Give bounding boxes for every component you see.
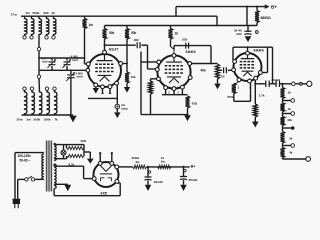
wire to lamp bbox=[116, 85, 118, 105]
switch rotor contact bbox=[37, 47, 40, 50]
wire plate pin stub bbox=[247, 47, 249, 51]
capacitor .002 coupling bbox=[137, 42, 140, 48]
svg-text:50k: 50k bbox=[131, 31, 137, 35]
svg-text:20mfd: 20mfd bbox=[154, 180, 163, 184]
wire box right bbox=[272, 47, 274, 84]
capacitor output 2 bbox=[276, 81, 279, 88]
transformer primary winding bbox=[42, 154, 44, 179]
wire to plate pin bbox=[171, 47, 175, 54]
B+ arrowhead bbox=[265, 5, 268, 8]
resistor 50k screen V1 bbox=[125, 29, 129, 40]
svg-text:2w: 2w bbox=[136, 160, 141, 164]
wire bbox=[66, 66, 68, 70]
svg-text:20Ω: 20Ω bbox=[81, 139, 87, 143]
plate lead tick bbox=[99, 152, 101, 154]
wire chain segment bbox=[282, 126, 284, 132]
svg-text:2k: 2k bbox=[52, 11, 56, 15]
switch contact bbox=[45, 36, 48, 39]
resistor 2.7k cathode V3 bbox=[253, 104, 257, 117]
wire bbox=[247, 26, 249, 32]
switch rotor contact 2 bbox=[37, 75, 40, 78]
ground cathode V3 bbox=[252, 122, 259, 128]
svg-text:2m: 2m bbox=[26, 11, 31, 15]
wire bbox=[24, 16, 26, 19]
wire bbox=[170, 26, 172, 29]
capacitor 20mfd filter 2 bbox=[180, 177, 187, 180]
switch contact bbox=[30, 87, 33, 90]
wire pin stub bbox=[173, 91, 175, 95]
junction bbox=[187, 114, 189, 116]
svg-text:6SJ7: 6SJ7 bbox=[109, 47, 119, 52]
ground filter 2 bbox=[180, 185, 187, 191]
wire bbox=[53, 16, 55, 19]
svg-text:5w: 5w bbox=[161, 160, 166, 164]
svg-text:10k: 10k bbox=[131, 75, 136, 79]
wire B+ feed line bbox=[176, 6, 269, 8]
lamp indicator bbox=[115, 104, 120, 109]
resistor 200 ohm filter bbox=[133, 165, 147, 169]
wire bbox=[256, 23, 258, 26]
wire chain bbox=[282, 84, 284, 88]
junction cathode node bbox=[254, 83, 256, 85]
wire line cord B bbox=[17, 179, 19, 199]
wire grid return bbox=[234, 82, 239, 84]
wire bbox=[31, 90, 33, 92]
terminal output tap bbox=[292, 82, 296, 86]
svg-text:B+: B+ bbox=[271, 5, 277, 10]
wire lamp top bbox=[63, 145, 65, 151]
wire bbox=[38, 34, 40, 47]
wire hum tap to ground bbox=[84, 151, 90, 153]
wire primary top lead bbox=[15, 152, 44, 154]
resistor 430 ohm cathode V2 bbox=[186, 96, 190, 108]
wire bbox=[70, 70, 72, 74]
wire bbox=[150, 79, 152, 81]
polarity mark bbox=[148, 171, 150, 173]
heater tick bbox=[109, 92, 112, 94]
switch contact a bbox=[25, 178, 28, 181]
wire bbox=[234, 100, 251, 102]
wire plate stub 1 bbox=[99, 153, 101, 161]
wire bbox=[51, 66, 53, 70]
wire screen supply rail bbox=[105, 25, 258, 27]
wire grid resistor down bbox=[84, 29, 86, 65]
svg-text:40k: 40k bbox=[201, 69, 207, 73]
ground tank bbox=[69, 116, 76, 123]
resistor attenuator R4 bbox=[281, 132, 285, 144]
capacitor .05 coupling V3 bbox=[224, 67, 227, 73]
switch contact bbox=[53, 87, 56, 90]
ground heater bbox=[87, 159, 94, 164]
svg-text:1k: 1k bbox=[288, 91, 292, 95]
wire tap bbox=[283, 145, 292, 147]
wire bbox=[46, 34, 48, 36]
wire cathode bbox=[254, 80, 256, 104]
wire bbox=[46, 90, 48, 92]
wire bbox=[83, 145, 85, 156]
wire bbox=[66, 58, 68, 61]
resistor hum balance top bbox=[67, 147, 85, 150]
ground screen divider bbox=[124, 87, 130, 93]
inductor L2 band coil bbox=[32, 19, 34, 35]
plate lead tick 2 bbox=[111, 152, 113, 154]
wire plate bbox=[104, 39, 106, 50]
wire bbox=[53, 164, 55, 166]
junction bbox=[256, 6, 258, 8]
wire bbox=[211, 63, 218, 65]
inductor L3 band coil bbox=[39, 19, 41, 35]
wire bbox=[51, 58, 53, 61]
wire bbox=[104, 26, 106, 29]
wire bbox=[53, 144, 55, 145]
wire bbox=[233, 94, 235, 102]
junction bbox=[38, 57, 40, 59]
transformer secondary HV winding bbox=[54, 164, 56, 189]
switch contact bbox=[45, 87, 48, 90]
inductor L1 band coil bbox=[25, 19, 27, 35]
terminal tap bbox=[291, 112, 295, 116]
wire line cord A bbox=[14, 153, 16, 200]
wire heater top bbox=[54, 144, 84, 146]
terminal output tap 2 bbox=[299, 82, 302, 85]
wire plate stub 2 bbox=[111, 153, 113, 161]
wire bbox=[31, 16, 33, 19]
pilot lamp filament bbox=[62, 151, 65, 154]
resistor 50k plate V1 bbox=[103, 29, 107, 40]
wire screen feedback bbox=[267, 47, 269, 72]
resistor attenuator R3 bbox=[281, 117, 285, 126]
svg-text:6800Ω: 6800Ω bbox=[261, 16, 272, 20]
resistor hum balance bottom bbox=[67, 154, 85, 157]
svg-text:.002: .002 bbox=[133, 38, 139, 42]
wire HV bottom lead bbox=[54, 195, 120, 197]
svg-text:20m: 20m bbox=[17, 118, 23, 122]
ground lamp bbox=[114, 112, 120, 118]
wire bbox=[53, 189, 55, 196]
terminal common jack bbox=[306, 157, 311, 162]
wire switch arm down bbox=[38, 51, 40, 58]
junction plate node bbox=[104, 44, 106, 46]
wire tap bbox=[283, 113, 292, 115]
svg-text:500k: 500k bbox=[34, 118, 41, 122]
ground cathode V2 bbox=[184, 115, 191, 121]
svg-text:17m: 17m bbox=[11, 12, 17, 16]
wire core line bbox=[51, 141, 53, 192]
svg-text:7k: 7k bbox=[55, 118, 59, 122]
wire top supply rail bbox=[21, 15, 217, 17]
wire screen pin V2 bbox=[192, 63, 211, 65]
wire to output jacks bbox=[280, 83, 307, 85]
wire bbox=[126, 83, 128, 87]
wire screen feed bbox=[126, 39, 128, 72]
svg-text:200k: 200k bbox=[44, 118, 51, 122]
resistor grid leak V2 bbox=[149, 81, 153, 94]
wire box left bbox=[232, 47, 234, 60]
switch contact bbox=[30, 36, 33, 39]
wire pin stub bbox=[102, 89, 104, 94]
wire bbox=[89, 152, 91, 159]
AC plug bbox=[12, 199, 20, 203]
wire bbox=[150, 94, 152, 115]
capacitor trimmer 3-30 bbox=[47, 59, 56, 68]
svg-text:105-125v: 105-125v bbox=[18, 154, 32, 158]
svg-text:.002: .002 bbox=[182, 37, 188, 41]
wire bbox=[141, 44, 147, 46]
ground filter 1 bbox=[145, 185, 152, 191]
wire cathode pin bbox=[151, 78, 157, 80]
resistor 1 meg grid bbox=[83, 19, 87, 29]
wire B+ drop to screen rail bbox=[246, 7, 248, 26]
wire tank top bbox=[39, 57, 85, 59]
wire cathode return bbox=[141, 114, 188, 116]
plug prong bbox=[14, 203, 16, 208]
wire to common jack bbox=[283, 158, 306, 160]
wire screen pin tap bbox=[123, 63, 127, 65]
capacitor output 1 bbox=[266, 81, 269, 88]
inductor L5 band coil bbox=[54, 19, 56, 35]
wire suppressor tie bbox=[141, 61, 157, 63]
wire bbox=[46, 16, 48, 19]
wire screen pin bbox=[262, 72, 267, 74]
svg-text:6X5: 6X5 bbox=[101, 192, 107, 196]
tube V1 6SJ7 oscillator bbox=[86, 50, 123, 88]
svg-text:1m: 1m bbox=[89, 23, 94, 27]
svg-text:.05: .05 bbox=[221, 75, 225, 79]
junction filter 1 bbox=[147, 166, 149, 168]
wire tuning cap to ground rail bbox=[70, 78, 72, 115]
switch contact bbox=[23, 36, 26, 39]
wire bbox=[38, 70, 40, 75]
ground center tap bbox=[64, 185, 71, 191]
svg-text:mmf: mmf bbox=[42, 60, 48, 64]
junction bbox=[210, 63, 212, 65]
wire bbox=[170, 39, 172, 47]
heater tick bbox=[101, 92, 104, 94]
wire pin stub bbox=[109, 89, 111, 94]
svg-text:50-60 ~: 50-60 ~ bbox=[20, 159, 31, 163]
wire bbox=[54, 113, 56, 115]
resistor 1k filter bbox=[158, 165, 172, 169]
wire B+ to rail bbox=[175, 7, 177, 17]
wire bbox=[83, 166, 85, 178]
junction bbox=[247, 46, 249, 48]
inductor L10 feedback coil bbox=[55, 92, 57, 114]
wire coupling bbox=[105, 44, 136, 46]
svg-text:43Ω: 43Ω bbox=[192, 102, 198, 106]
wire bbox=[256, 7, 258, 11]
wire bbox=[173, 46, 175, 50]
wire tank bottom bbox=[39, 69, 86, 71]
wire bbox=[66, 145, 68, 149]
svg-text:4k: 4k bbox=[289, 150, 293, 154]
transformer core lamination bbox=[45, 141, 47, 192]
resistor 1k plate V2 bbox=[169, 29, 173, 40]
wire heater bottom bbox=[54, 158, 66, 160]
junction bbox=[126, 63, 128, 65]
wire HV center tap bbox=[54, 183, 68, 185]
switch contact bbox=[52, 36, 55, 39]
terminal G bbox=[255, 31, 258, 34]
wire pin down bbox=[250, 83, 252, 102]
resistor attenuator R5 bbox=[281, 148, 285, 158]
wire bbox=[147, 180, 149, 184]
wire plate box top bbox=[233, 46, 273, 48]
terminal output jack bbox=[307, 81, 312, 86]
pilot lamp bbox=[61, 150, 66, 155]
inductor L9 feedback coil bbox=[47, 92, 49, 114]
wire bbox=[219, 69, 223, 71]
wire coupling down bbox=[147, 45, 149, 69]
tube V4 6X5 rectifier bbox=[92, 162, 119, 188]
wire to V2 grid bbox=[148, 68, 156, 70]
wire under V1 bbox=[88, 97, 117, 99]
svg-text:5k: 5k bbox=[289, 137, 293, 141]
wire bbox=[31, 113, 33, 115]
wire bbox=[31, 34, 33, 36]
wire bbox=[95, 87, 97, 88]
svg-text:60k: 60k bbox=[44, 11, 49, 15]
ground cathode V1 bbox=[93, 88, 99, 94]
junction bbox=[84, 57, 86, 59]
wire rotor to coil bbox=[38, 78, 41, 92]
wire switch lead bbox=[18, 178, 25, 180]
resistor attenuator R2 bbox=[281, 103, 285, 112]
svg-text:lamp: lamp bbox=[121, 106, 128, 110]
switch arm bbox=[28, 176, 32, 178]
wire tap bbox=[283, 100, 292, 102]
wire pin stub bbox=[181, 89, 183, 95]
wire bbox=[147, 167, 149, 177]
svg-text:1k: 1k bbox=[175, 31, 179, 35]
wire bbox=[116, 109, 118, 113]
junction filter 2 bbox=[182, 166, 184, 168]
svg-text:mfd: mfd bbox=[236, 32, 242, 36]
capacitor 20mfd filter 1 bbox=[145, 177, 152, 180]
resistor 270k grid return bbox=[232, 84, 236, 94]
capacitor .002 coupling 2 bbox=[186, 43, 189, 49]
wire feedback vertical bbox=[140, 52, 142, 115]
junction bbox=[246, 6, 248, 8]
wire switch to primary bbox=[35, 178, 44, 180]
svg-text:1k: 1k bbox=[288, 107, 292, 111]
wire tap bbox=[283, 127, 292, 129]
wire filter line bbox=[147, 166, 190, 168]
wire down to divider bbox=[210, 46, 212, 64]
svg-text:20mfd: 20mfd bbox=[189, 178, 198, 182]
inductor L6 feedback coil bbox=[25, 92, 27, 114]
wire bbox=[54, 90, 56, 92]
svg-text:2.7k: 2.7k bbox=[259, 93, 265, 97]
wire bbox=[84, 16, 86, 18]
wire bbox=[85, 63, 87, 65]
wire to rectifier plate bbox=[84, 178, 93, 180]
svg-text:6AK6: 6AK6 bbox=[186, 49, 197, 54]
wire lamp bottom bbox=[63, 155, 65, 159]
wire bbox=[66, 156, 68, 159]
resistor 10k screen divider bbox=[125, 72, 129, 83]
svg-text:270k: 270k bbox=[227, 95, 234, 99]
wire chain bottom bbox=[282, 158, 284, 160]
wire heater bus V2 bbox=[162, 94, 188, 96]
junction attenuator top bbox=[282, 83, 284, 85]
svg-text:10k: 10k bbox=[287, 118, 292, 122]
inductor L7 feedback coil bbox=[32, 92, 34, 114]
inductor L8 feedback coil bbox=[40, 92, 42, 114]
wire to V3 grid bbox=[228, 69, 233, 71]
wire bbox=[217, 79, 219, 84]
inductor L4 band coil bbox=[47, 19, 49, 35]
wire core line bbox=[49, 141, 51, 192]
svg-text:2m: 2m bbox=[27, 118, 32, 122]
ground bbox=[245, 36, 252, 42]
wire bottom ground rail bbox=[22, 114, 74, 116]
wire bbox=[38, 16, 40, 19]
capacitor padder bbox=[62, 59, 71, 68]
wire bbox=[46, 113, 48, 115]
wire bbox=[254, 117, 256, 122]
svg-text:20mfd: 20mfd bbox=[272, 78, 281, 82]
svg-text:50k: 50k bbox=[109, 31, 115, 35]
wire bbox=[183, 180, 185, 185]
wire bbox=[24, 34, 26, 36]
wire chain segment bbox=[282, 112, 284, 117]
svg-text:6AK6: 6AK6 bbox=[254, 48, 265, 53]
capacitor main tuning 4-360 bbox=[66, 72, 75, 81]
wire bbox=[126, 26, 128, 29]
wire bbox=[269, 83, 276, 85]
terminal tap bbox=[291, 144, 295, 148]
resistor 40k grid leak V3 bbox=[216, 64, 220, 79]
tube V3 6AK6 output bbox=[232, 51, 263, 83]
wire output bbox=[255, 83, 265, 85]
plug prong 2 bbox=[17, 203, 19, 208]
wire bbox=[183, 167, 185, 176]
ground 40k bbox=[214, 84, 220, 90]
polarity mark 2 bbox=[184, 169, 186, 171]
svg-text:mmf: mmf bbox=[72, 58, 78, 62]
wire rail drop bbox=[216, 16, 218, 25]
capacitor 20-40 mfd screen bypass bbox=[245, 31, 252, 34]
wire bbox=[24, 113, 26, 115]
tube V2 6AK6 buffer bbox=[155, 54, 192, 91]
wire V2 plate coupling bbox=[174, 45, 211, 47]
resistor 6800 ohm bbox=[255, 11, 259, 23]
wire core line bbox=[47, 141, 49, 192]
junction bbox=[70, 69, 72, 71]
wire chain segment bbox=[282, 99, 284, 104]
svg-text:B+: B+ bbox=[191, 164, 196, 168]
terminal tap filled bbox=[291, 126, 295, 130]
switch contact b bbox=[31, 178, 34, 181]
terminal tap bbox=[291, 99, 295, 103]
svg-text:mmf: mmf bbox=[77, 75, 83, 79]
wire HV top lead bbox=[54, 165, 84, 167]
wire bbox=[39, 113, 41, 115]
transformer secondary 6.3v winding bbox=[54, 144, 56, 161]
wire bbox=[24, 90, 26, 92]
wire tank left bbox=[38, 58, 40, 70]
resistor attenuator R1 bbox=[281, 88, 285, 99]
svg-text:500k: 500k bbox=[33, 11, 40, 15]
wire chain segment bbox=[282, 143, 284, 148]
wire rectifier output bbox=[119, 166, 133, 168]
wire bbox=[118, 182, 121, 184]
wire bbox=[53, 34, 55, 36]
wire up to rectifier bbox=[119, 183, 121, 196]
wire bbox=[187, 108, 189, 115]
wire pin stub bbox=[165, 90, 167, 95]
switch contact bbox=[23, 87, 26, 90]
